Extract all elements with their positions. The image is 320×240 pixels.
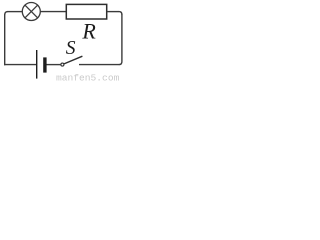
svg-text:R: R [81, 18, 96, 43]
wire bottom-right corner [119, 62, 122, 65]
wire top-right corner [119, 12, 122, 15]
svg-text:S: S [66, 38, 76, 59]
wire lamp to resistor [40, 11, 66, 13]
wire battery to bottom-left corner [4, 64, 36, 66]
battery negative plate (short thick) [43, 57, 46, 72]
wire resistor to top-right corner [107, 11, 119, 13]
switch terminal circle [61, 63, 64, 66]
lamp L (circle with X) [22, 3, 40, 21]
wire left vertical [4, 14, 6, 65]
svg-text:manfen5.com: manfen5.com [56, 73, 120, 84]
wire top segment to lamp [8, 11, 23, 13]
wire right vertical [121, 14, 123, 62]
wire top-left corner [5, 12, 8, 15]
resistor R box [66, 4, 106, 19]
wire bottom right segment to switch [79, 64, 120, 66]
battery positive plate (long thin) [36, 50, 38, 79]
wire switch to battery [46, 64, 60, 66]
switch S lever [64, 56, 82, 64]
